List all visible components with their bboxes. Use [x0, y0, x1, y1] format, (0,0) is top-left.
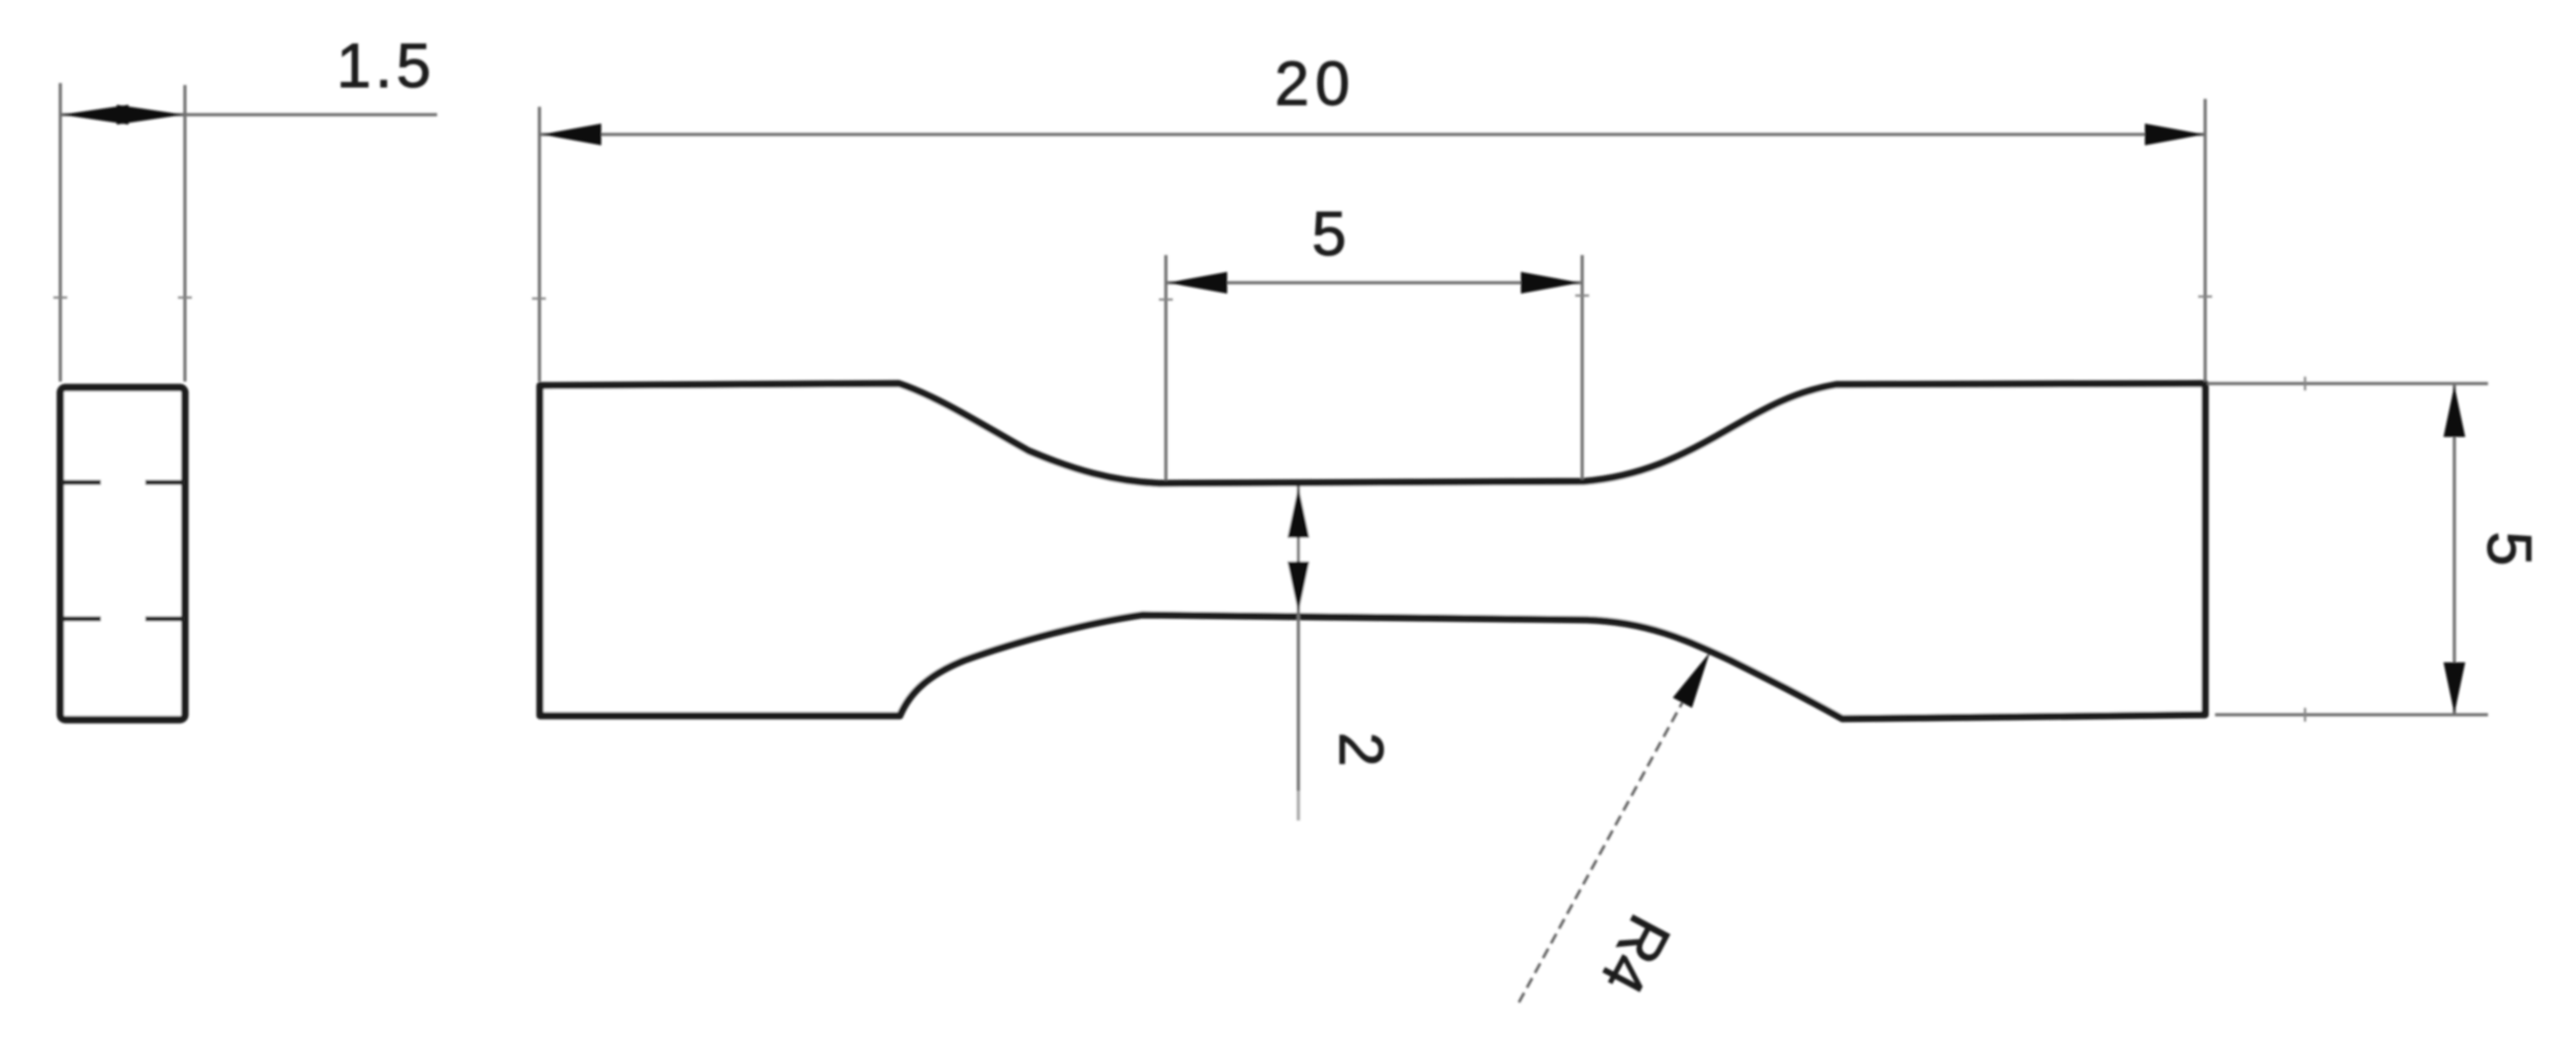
svg-text:20: 20: [1275, 49, 1356, 119]
svg-text:5: 5: [1311, 200, 1352, 269]
svg-text:5: 5: [2474, 531, 2543, 571]
svg-text:2: 2: [1326, 732, 1395, 772]
svg-text:1.5: 1.5: [336, 32, 435, 101]
